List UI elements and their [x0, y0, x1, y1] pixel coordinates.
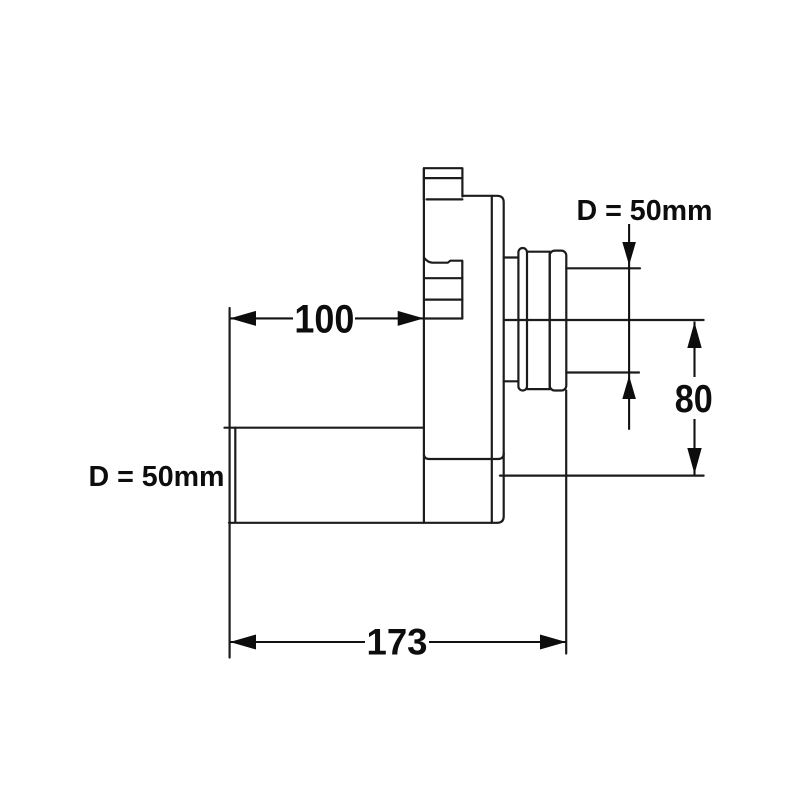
svg-text:D = 50mm: D = 50mm	[577, 195, 713, 227]
svg-text:80: 80	[675, 378, 713, 421]
svg-text:100: 100	[294, 298, 354, 342]
svg-text:D = 50mm: D = 50mm	[89, 461, 225, 493]
svg-text:173: 173	[367, 622, 428, 663]
